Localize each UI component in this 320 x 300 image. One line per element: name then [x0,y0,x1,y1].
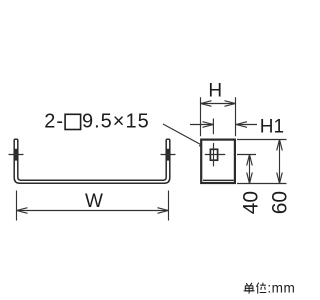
svg-text:H1: H1 [260,117,284,138]
svg-text:40: 40 [239,191,262,214]
svg-text:2-: 2- [44,111,64,133]
svg-text:60: 60 [268,191,291,214]
svg-text:H: H [208,81,222,102]
svg-text::mm: :mm [267,281,295,296]
svg-text:9.5×15: 9.5×15 [82,111,150,133]
svg-text:W: W [85,191,103,212]
